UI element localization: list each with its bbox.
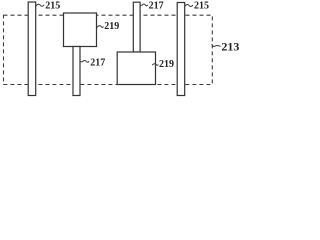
leader squiggle to label 215 right <box>185 4 193 6</box>
svg-text:219: 219 <box>159 59 174 70</box>
leader squiggle to label 217 middle <box>140 4 148 6</box>
electrode bar 215 (right) <box>177 3 185 96</box>
dashed substrate outline 213 <box>4 15 213 84</box>
block 219 (upper left) <box>64 13 97 47</box>
svg-text:219: 219 <box>104 21 119 32</box>
electrode bar 217 (top middle) <box>133 2 140 52</box>
leader squiggle to label 217 lower-left bar <box>80 61 89 63</box>
svg-text:217: 217 <box>149 0 164 11</box>
leader squiggle to label 213 <box>212 44 221 46</box>
electrode bar 215 (left) <box>28 2 36 96</box>
leader squiggle to label 219 lower block <box>152 64 158 66</box>
svg-text:215: 215 <box>194 0 209 11</box>
leader squiggle to label 215 left <box>36 4 44 6</box>
electrode bar 217 (below upper block) <box>73 47 80 96</box>
svg-text:215: 215 <box>45 1 60 12</box>
svg-text:213: 213 <box>221 39 239 53</box>
block 219 (lower middle) <box>117 52 155 85</box>
leader squiggle to label 219 upper block <box>97 26 104 28</box>
svg-text:217: 217 <box>90 58 105 69</box>
